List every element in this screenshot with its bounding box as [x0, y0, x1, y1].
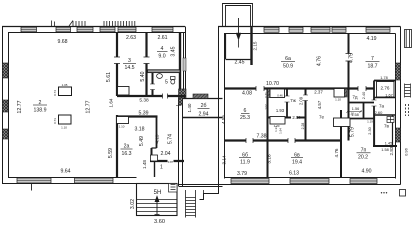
wall y102.5 under 7d — [349, 102, 375, 104]
svg-text:5.39: 5.39 — [138, 111, 148, 117]
svg-text:5.61: 5.61 — [106, 72, 112, 82]
svg-text:5.79: 5.79 — [350, 127, 356, 137]
dots near bottom wall — [381, 192, 387, 193]
svg-text:3.18: 3.18 — [134, 127, 144, 133]
vent box 2 — [334, 89, 347, 98]
svg-text:0.46: 0.46 — [277, 94, 283, 98]
wall y80.5 above 7b box — [374, 80, 396, 82]
window top-right 5 — [366, 27, 390, 32]
window bottom-right 1 — [231, 179, 269, 184]
wall A between room 2 and 3 (upper) — [116, 33, 118, 57]
svg-text:4.19: 4.19 — [366, 36, 376, 42]
svg-text:1: 1 — [160, 165, 163, 171]
svg-text:5.59: 5.59 — [108, 148, 114, 158]
passage bottom wall of room 2b — [183, 117, 223, 119]
window top-left 2 — [56, 27, 71, 32]
svg-text:12.77: 12.77 — [86, 100, 92, 113]
sanitary wall x348.5 — [348, 89, 350, 141]
window top-left 6 — [152, 27, 173, 32]
dim line 1.56/1.58 — [347, 110, 363, 113]
svg-text:7а: 7а — [379, 104, 385, 109]
svg-text:2.30: 2.30 — [368, 127, 372, 134]
wall A lower / room 2a left — [116, 115, 118, 177]
svg-text:50.9: 50.9 — [283, 64, 293, 70]
svg-text:1.34: 1.34 — [274, 126, 278, 132]
wall between 6a and 7 — [348, 33, 350, 89]
wall: left building top inner — [8, 32, 185, 34]
wall: right building top outer — [218, 26, 401, 28]
window bottom-right 3 — [350, 179, 377, 184]
wall: left building bottom outer — [2, 183, 137, 185]
room 7b box — [377, 82, 395, 98]
svg-text:0.73: 0.73 — [53, 118, 57, 124]
svg-text:2.04: 2.04 — [292, 115, 301, 120]
svg-text:2.28: 2.28 — [301, 123, 305, 130]
wall: right building left outer — [218, 27, 220, 194]
svg-text:5.49: 5.49 — [139, 136, 145, 146]
wall: left building left outer — [2, 27, 4, 184]
svg-text:4.90: 4.90 — [361, 169, 371, 175]
svg-text:6.13: 6.13 — [289, 171, 299, 177]
staircase small landing box — [169, 184, 178, 193]
wall x363.5 — [363, 103, 365, 120]
window top-left 3 — [77, 27, 93, 32]
sanitary wall x287 — [286, 89, 288, 118]
svg-text:16.3: 16.3 — [121, 151, 131, 157]
wall y146 bottom of 7v — [373, 145, 397, 147]
svg-text:3.14: 3.14 — [222, 155, 228, 165]
bottom-right corner bracket — [400, 190, 406, 197]
svg-text:0.96: 0.96 — [404, 147, 409, 156]
svg-text:2.09: 2.09 — [299, 96, 304, 105]
wall room 5 left — [152, 73, 154, 97]
wall C right of rooms 4-5 — [179, 33, 181, 96]
fixture box 4 — [270, 117, 285, 125]
svg-text:14.5: 14.5 — [124, 65, 134, 71]
fixture box 3 — [334, 118, 351, 127]
sanitary wall x305.5 — [305, 89, 307, 141]
svg-text:6а: 6а — [285, 56, 291, 62]
svg-text:4.08: 4.08 — [242, 91, 252, 97]
svg-text:3.02: 3.02 — [130, 199, 136, 209]
wall: right building right inner — [395, 34, 397, 179]
svg-text:1.10: 1.10 — [61, 126, 67, 130]
svg-text:7: 7 — [371, 56, 374, 62]
duct box in room 2a — [117, 117, 129, 124]
svg-text:18.7: 18.7 — [367, 64, 377, 70]
vent box 1 — [268, 89, 285, 98]
window top-right 4 — [332, 27, 346, 32]
sanitary wall y117.5 — [268, 117, 306, 119]
wall bottom of rooms 3-5 — [117, 95, 186, 97]
svg-text:4.75: 4.75 — [349, 53, 355, 63]
wall: right building right outer — [400, 27, 402, 185]
svg-text:7.38: 7.38 — [256, 134, 266, 140]
svg-text:1.10: 1.10 — [119, 125, 125, 129]
wall right of room 6 — [267, 89, 269, 179]
wall: left building bottom inner — [8, 177, 137, 179]
wall under 6a and 7 (y88.5) — [224, 87, 374, 89]
wall x374 — [373, 81, 375, 147]
column in room 2 (upper) — [59, 87, 72, 96]
dashed ladder right margin 2 — [406, 104, 409, 116]
svg-text:7е: 7е — [319, 115, 325, 120]
svg-text:2.37: 2.37 — [314, 90, 323, 95]
window in right band — [183, 58, 186, 71]
wall: left building left inner — [8, 33, 10, 178]
svg-text:1.78: 1.78 — [380, 76, 387, 80]
wall B between room 3 and 4 — [145, 33, 147, 57]
svg-text:138.9: 138.9 — [34, 107, 47, 113]
hatched section right wall 2 — [396, 128, 401, 142]
svg-text:2.63: 2.63 — [126, 35, 136, 41]
svg-text:5: 5 — [165, 80, 168, 86]
dim cross at passage — [176, 103, 181, 108]
svg-text:4.57: 4.57 — [317, 100, 322, 109]
right passage wall inner x178 — [178, 98, 180, 186]
svg-text:5.74: 5.74 — [168, 134, 174, 144]
svg-text:25.3: 25.3 — [240, 115, 250, 121]
hatched section right band bottom — [179, 89, 187, 98]
exterior ladder below junction — [186, 190, 204, 218]
door jamb ticks bottom wall — [163, 94, 168, 99]
staircase 5H outer box — [137, 184, 178, 216]
svg-text:1.58: 1.58 — [381, 148, 388, 152]
wall between 6b and 6v continues — [267, 141, 269, 179]
svg-text:0.74: 0.74 — [53, 90, 57, 96]
svg-text:4.55: 4.55 — [221, 115, 226, 124]
svg-text:1.67: 1.67 — [385, 94, 392, 98]
svg-text:4.76: 4.76 — [334, 148, 339, 157]
wall top of room 1 — [150, 160, 184, 162]
svg-text:11.9: 11.9 — [240, 160, 250, 166]
small box at room1 corner — [151, 155, 158, 161]
corridor wall y140.5 — [224, 139, 341, 141]
svg-text:4.15: 4.15 — [155, 134, 160, 143]
staircase arrow — [155, 197, 160, 215]
passage bottom closing wall — [179, 185, 223, 187]
hatched wall section left 2 — [3, 100, 9, 112]
window bottom-left 1 — [17, 178, 51, 183]
svg-text:9.0: 9.0 — [158, 54, 165, 60]
vent ticks above top wall — [52, 21, 135, 27]
toilet in room 5 — [171, 77, 176, 85]
svg-text:2.40: 2.40 — [362, 92, 366, 99]
svg-text:1.05: 1.05 — [62, 83, 68, 87]
downpipe tick below bottom wall — [31, 184, 33, 191]
wall: right building bottom outer — [219, 184, 401, 186]
tiny gray labels — [53, 83, 373, 134]
wall y97.5 below 7b — [374, 97, 396, 99]
svg-text:0.87: 0.87 — [168, 160, 174, 164]
hatched section right wall 1 — [396, 63, 401, 80]
room 2a top wall — [116, 115, 158, 117]
wall y115 top of 7v — [374, 114, 396, 116]
svg-text:12.77: 12.77 — [17, 100, 23, 113]
svg-text:1.45: 1.45 — [385, 142, 392, 146]
wall: left building right band inner x183.5 — [183, 33, 185, 99]
passage top wall — [183, 98, 223, 100]
wall: left building top outer — [2, 26, 185, 28]
window top-left 1 — [21, 27, 37, 32]
entrance porch top — [223, 4, 253, 27]
svg-text:4.76: 4.76 — [317, 56, 323, 66]
tambour left wall — [225, 33, 227, 59]
svg-text:1.10: 1.10 — [348, 112, 354, 116]
svg-text:1.93: 1.93 — [276, 108, 285, 113]
svg-text:3.79: 3.79 — [237, 171, 247, 177]
svg-text:5.40: 5.40 — [140, 71, 146, 81]
window top-right 1 — [264, 27, 279, 32]
wall: right building bottom inner — [224, 177, 396, 179]
svg-text:2.15: 2.15 — [253, 41, 258, 50]
svg-text:2.76: 2.76 — [381, 86, 390, 91]
window sill hatch junction — [193, 94, 208, 99]
svg-text:10.70: 10.70 — [266, 81, 279, 87]
wall: right building left inner — [224, 34, 226, 179]
svg-text:7ж: 7ж — [290, 98, 297, 103]
svg-text:2.83: 2.83 — [389, 146, 394, 155]
svg-text:1.64: 1.64 — [109, 98, 114, 107]
door jamb ticks wall B — [144, 57, 150, 64]
window top-left 4 — [100, 27, 115, 32]
svg-text:20.2: 20.2 — [358, 155, 368, 161]
svg-text:1.40: 1.40 — [187, 103, 192, 112]
svg-text:1.94: 1.94 — [279, 128, 283, 134]
ladder right margin — [405, 84, 411, 98]
svg-text:1.19: 1.19 — [367, 120, 373, 124]
room 2a right wall — [156, 117, 158, 148]
right passage wall outer x182 — [182, 98, 184, 186]
svg-text:5.38: 5.38 — [139, 98, 149, 104]
svg-text:2.61: 2.61 — [157, 35, 167, 41]
svg-text:9.68: 9.68 — [57, 39, 67, 45]
window bottom-right 2 — [290, 179, 329, 184]
svg-text:7в: 7в — [384, 124, 390, 129]
sink in room 5 — [157, 74, 163, 79]
svg-text:3.45: 3.45 — [171, 46, 177, 56]
svg-text:6: 6 — [244, 108, 247, 114]
svg-text:1.10: 1.10 — [335, 98, 341, 102]
balcony top right margin — [405, 30, 412, 48]
hatched passage wall top — [179, 98, 183, 105]
room 7v walls — [375, 115, 393, 146]
staircase steps — [137, 200, 178, 212]
column in room 2 (lower) — [59, 115, 72, 124]
svg-text:1.02: 1.02 — [264, 104, 268, 110]
svg-text:2а: 2а — [124, 144, 130, 150]
svg-text:2.04: 2.04 — [160, 151, 170, 157]
svg-text:3.60: 3.60 — [154, 219, 165, 225]
wall y118.5 — [341, 118, 374, 120]
svg-text:0.71: 0.71 — [264, 92, 268, 98]
window top-left 5 — [118, 27, 136, 32]
entrance arrow — [236, 18, 241, 48]
svg-text:1.48: 1.48 — [142, 160, 147, 169]
window top-right 2 — [289, 27, 303, 32]
svg-text:1.56: 1.56 — [352, 107, 359, 111]
svg-text:3.16: 3.16 — [267, 154, 273, 164]
window bottom-left 2 — [75, 178, 114, 183]
hatched wall section left 1 — [3, 63, 9, 78]
svg-text:19.4: 19.4 — [292, 160, 302, 166]
svg-text:2.94: 2.94 — [198, 112, 208, 118]
boiler box in 7v — [387, 117, 394, 123]
hatched wall section left 3 — [3, 129, 9, 139]
wall: right building top inner — [224, 33, 396, 35]
tambour right wall — [250, 27, 252, 66]
svg-text:2.45: 2.45 — [234, 60, 244, 66]
bottom-left corner step — [200, 185, 219, 200]
duct box in room 3 — [118, 87, 130, 96]
wall between rooms 4 and 5 — [148, 70, 181, 73]
svg-text:9.64: 9.64 — [60, 168, 70, 174]
tambour bottom wall — [226, 59, 251, 61]
door jamb ticks wall A — [114, 57, 120, 64]
svg-text:7д: 7д — [352, 95, 358, 100]
room 1 left wall — [154, 161, 156, 177]
wall: left building right band outer x185.5 — [185, 27, 187, 99]
svg-text:5Н: 5Н — [154, 190, 162, 196]
svg-text:2.60: 2.60 — [375, 110, 384, 115]
window top-right 3 — [311, 27, 330, 32]
wall left of room 7p — [340, 110, 342, 178]
